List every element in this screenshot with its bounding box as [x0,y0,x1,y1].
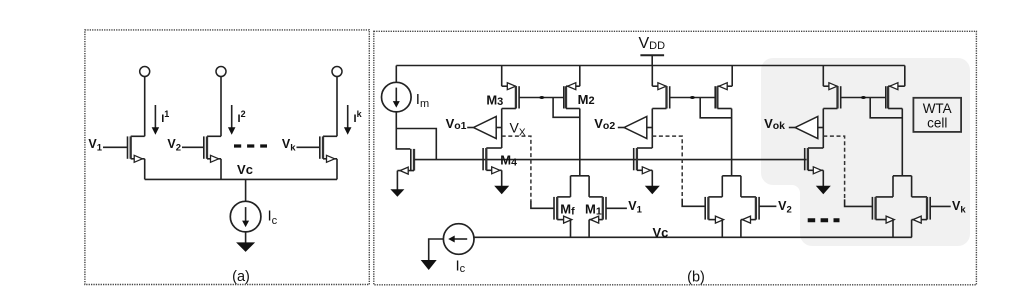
wire diode connection [553,98,580,118]
wire mirror drain down [579,109,581,176]
transistor Mf stage 2 (NMOS feedback) [705,176,741,238]
wire input V1 [606,207,627,209]
ground [816,186,831,195]
transistor P-right stage 3 (PMOS diode) [886,66,905,109]
wire Ic to ground [245,232,247,243]
ground [236,242,255,252]
current arrow I2 [228,105,236,135]
current source Im [382,82,412,112]
wire gates [519,97,564,99]
wire input V2 [759,205,776,207]
transistor Qk (input Vk) [297,67,343,180]
transistor M2 (PMOS diode) [564,66,580,109]
transistor M1 stage 2 (NMOS input) [741,176,759,238]
svg-text:Vc: Vc [237,162,253,177]
op-amp buffer Vok [789,117,824,139]
panel (a) dotted frame [85,30,369,285]
wire diode connection [870,98,902,118]
current arrow Ik [344,105,352,135]
wire input Vk [930,205,951,207]
WTA cell box [913,98,961,132]
current source Ic [230,201,261,232]
ellipsis dashes between Q2 and Qk [234,144,267,147]
transistor M4 (NMOS cascode) [483,148,502,186]
transistor M4 stage 3 (NMOS cascode) [805,148,824,186]
wire feedback to gate [531,201,554,208]
transistor Mf (NMOS feedback) [554,176,589,238]
wire mirror drain leg [566,108,580,110]
wire dashed feedback stage 1 [502,136,531,202]
wire gates [841,97,886,99]
transistor M1 stage 3 (NMOS input) [912,176,931,238]
wire VDD rail [396,65,905,67]
wire mirror drain leg [888,108,902,110]
wire rail to Im [395,66,397,83]
wire rail to Ic [245,179,247,201]
svg-text:cell: cell [927,116,947,131]
transistor P-left stage 3 (PMOS mirror out) [823,66,840,149]
wire Im diode connection to bias line [396,129,436,160]
transistor M1 (NMOS input) [589,176,606,238]
junction dot [539,96,544,99]
ground [494,186,509,195]
svg-text:Vc: Vc [653,225,669,240]
wire mirror drain down [731,109,733,176]
wire gates [670,97,716,99]
current arrow I1 [152,105,160,135]
VDD terminal bar [640,54,664,56]
wire feedback to gate [682,199,705,206]
transistor Q2 (input V2) [182,67,226,180]
WTA cell highlight region [761,58,970,246]
transistor Mf stage 3 (NMOS feedback) [872,176,911,238]
op-amp buffer Vo1 [467,117,502,139]
wire Vc rail [474,236,912,238]
wire gate bias line [414,159,807,161]
transistor Q1 (input V1) [103,67,150,180]
transistor M3 (PMOS mirror out) [502,66,519,149]
ground [390,189,404,197]
wire diode connection [700,98,731,118]
wire Ic to ground [429,239,444,261]
ground [645,186,660,195]
wire Im to Mb gate [396,112,410,149]
svg-text:(b): (b) [687,270,705,286]
wire dashed feedback stage 3 [823,136,844,200]
transistor P-right stage 2 (PMOS diode) [715,66,732,109]
panel (b) dotted frame [374,31,977,284]
wire feedback to gate [845,199,873,206]
wire dashed feedback stage 2 [652,136,682,200]
svg-text:WTA: WTA [923,101,952,116]
svg-text:(a): (a) [232,269,250,285]
junction dot [690,96,695,99]
junction dot [861,96,866,99]
current source Ic [443,224,474,255]
transistor P-left stage 2 (PMOS mirror out) [652,66,669,149]
wire mirror drain leg [717,108,731,110]
ellipsis dashes [808,218,840,222]
wire mirror drain down [901,109,903,176]
op-amp buffer Vo2 [618,117,653,139]
transistor Mb (bias diode NMOS) [397,149,414,190]
transistor M4 stage 2 (NMOS cascode) [634,148,653,186]
ground [421,260,437,270]
common source rail (node Vc) [145,178,337,180]
